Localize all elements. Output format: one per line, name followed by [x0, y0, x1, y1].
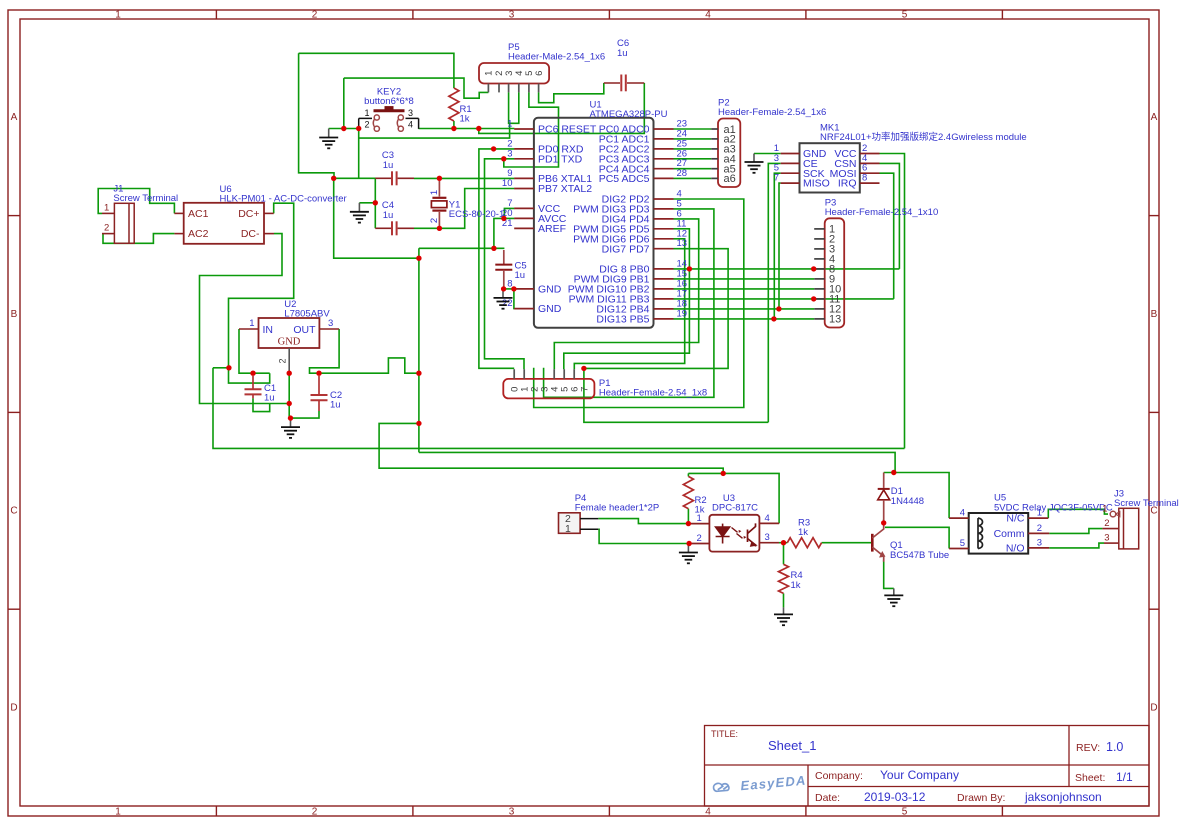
U2 pin 1 IN [239, 328, 259, 330]
J3 pin 3 [1104, 542, 1119, 544]
wire AVCC VCC feed [419, 247, 505, 249]
wire DIG4 to P1 pin4 [554, 219, 698, 369]
svg-text:1k: 1k [460, 114, 470, 125]
svg-text:3: 3 [328, 318, 333, 329]
wire DIG2 to P1 pin2 [534, 199, 744, 408]
resistor R3 [787, 538, 821, 548]
svg-text:D: D [1150, 703, 1157, 714]
MK1 pin 5 SCK [781, 172, 800, 174]
U6 pin DC- [264, 233, 274, 235]
svg-text:button6*6*8: button6*6*8 [364, 96, 414, 107]
svg-text:D: D [10, 703, 17, 714]
svg-text:PC6 RESET: PC6 RESET [538, 124, 597, 136]
U3 pin 3 [759, 542, 779, 544]
header P3 [825, 218, 845, 327]
svg-text:1u: 1u [617, 48, 628, 59]
P2 pin a5 [711, 168, 718, 170]
P2 pin a2 [711, 138, 718, 140]
optocoupler U3 [709, 515, 759, 552]
U1 pin 2 PD0 RXD [514, 148, 534, 150]
svg-text:1: 1 [484, 71, 495, 76]
svg-text:1N4448: 1N4448 [891, 496, 924, 507]
KEY2 contacts [373, 115, 403, 131]
wire Q1 emitter to gnd [884, 560, 894, 588]
U1 pin 4 DIG2 PD2 [654, 198, 674, 200]
ground U3 pin2 [679, 544, 698, 564]
svg-text:5: 5 [902, 10, 908, 21]
voltage regulator U2 [259, 318, 320, 348]
svg-text:1k: 1k [798, 527, 808, 538]
svg-text:2019-03-12: 2019-03-12 [864, 790, 926, 804]
EasyEDA logo [713, 773, 807, 796]
MK1 pin 7 MISO [781, 182, 800, 184]
U1 pin 5 PWM DIG3 PD3 [654, 208, 674, 210]
U6 pin AC2 [174, 233, 183, 235]
P2 pin a6 [711, 177, 718, 179]
wire P5.5 to TXD under chip [504, 92, 559, 167]
P2 pin a3 [711, 148, 718, 150]
svg-text:1: 1 [697, 513, 702, 524]
wire DIG9 row to P3 [674, 278, 815, 280]
P3 pin 1 [814, 228, 825, 230]
ground under U2 [281, 418, 300, 438]
U3 phototransistor [748, 523, 756, 546]
U2 pin 2 stem [288, 348, 290, 373]
wire MK1 CSN to P3 row8 [880, 163, 900, 269]
wire DIG11 row to P3 and MOSI [674, 298, 894, 300]
U1 pin 18 DIG12 PB4 [654, 308, 674, 310]
U3 LED symbol [716, 524, 747, 544]
wire C3 left net [334, 178, 376, 228]
U1 pin 15 PWM DIG9 PB1 [654, 278, 674, 280]
U1 pin 25 PC2 ADC2 [654, 148, 674, 150]
wire 5V vertical rail [418, 248, 420, 452]
P1 pin 6 [573, 369, 575, 379]
U1 pin 28 PC5 ADC5 [654, 177, 674, 179]
wire U1 right rows to P2 [674, 128, 712, 130]
crystal Y1 [438, 181, 440, 197]
wire U2 gnd vertical [288, 373, 290, 418]
P2 pin a4 [711, 158, 718, 160]
svg-text:1u: 1u [383, 160, 394, 171]
wire C1 bottom loop [253, 398, 270, 411]
svg-text:Your Company: Your Company [880, 768, 959, 782]
resistor R2 [683, 476, 693, 508]
svg-text:GND: GND [538, 303, 562, 315]
wire MK1 gnd [754, 153, 781, 155]
MK1 pin 4 CSN [860, 162, 880, 164]
svg-text:GND: GND [278, 337, 301, 348]
capacitor C2 [318, 376, 320, 395]
svg-text:Comm: Comm [994, 528, 1025, 540]
U1 pin 16 PWM DIG10 PB2 [654, 288, 674, 290]
J1 pin 2 [102, 233, 114, 235]
svg-text:a6: a6 [724, 173, 736, 185]
svg-text:2: 2 [312, 807, 318, 818]
wire U6 DC+ to U2 IN [229, 203, 294, 383]
P3 pin 12 [814, 308, 825, 310]
connector J3 [1119, 508, 1139, 549]
wire collector node to relay pin5 [883, 519, 885, 523]
U1 pin 22 GND [514, 308, 534, 310]
U3 pin 1 [688, 523, 709, 525]
svg-text:HLK-PM01 - AC-DC-converter: HLK-PM01 - AC-DC-converter [220, 194, 347, 205]
svg-text:Drawn By:: Drawn By: [957, 792, 1005, 804]
header P2 [718, 119, 740, 188]
svg-text:2: 2 [697, 533, 702, 544]
U1 pin 8 GND [514, 288, 534, 290]
svg-text:B: B [1151, 309, 1158, 320]
svg-text:N/O: N/O [1006, 543, 1025, 555]
svg-text:PB7 XTAL2: PB7 XTAL2 [538, 183, 592, 195]
MK1 pin 3 CE [781, 162, 800, 164]
ground near P2 [745, 154, 764, 173]
transistor Q1 [871, 534, 874, 552]
svg-text:AC1: AC1 [188, 208, 209, 220]
svg-text:MISO: MISO [803, 178, 830, 190]
wire D1 top row to relay pin4 [884, 473, 949, 519]
U3 pin 4 [759, 522, 779, 524]
wire MK1 MISO [779, 183, 781, 309]
svg-text:DC+: DC+ [238, 208, 259, 220]
svg-text:1u: 1u [330, 400, 341, 411]
svg-text:Sheet:: Sheet: [1075, 772, 1105, 784]
wire U6 DC- to gnd node [200, 234, 290, 404]
header P4 [559, 513, 581, 534]
U1 pin 3 PD1 TXD [514, 158, 534, 160]
U5 pin 3 N/O [1028, 547, 1049, 549]
wire MK1 VCC to bus1 [880, 154, 905, 449]
svg-text:DPC-817C: DPC-817C [712, 503, 758, 514]
P3 pin 11 [814, 298, 825, 300]
svg-text:Header-Female-2.54_1x6: Header-Female-2.54_1x6 [718, 107, 826, 118]
svg-text:3: 3 [1037, 537, 1042, 548]
wire DIG8 row to P3 pin8 and CSN [674, 268, 900, 270]
svg-text:2: 2 [1037, 523, 1042, 534]
ground C5 [494, 289, 513, 309]
P3 pin 13 [814, 318, 825, 320]
wire P4.2 to U3.1 [598, 519, 688, 524]
wire P4.1 to U3.2 [598, 529, 689, 543]
J3 pin 1 [1110, 511, 1116, 517]
svg-text:PD1 TXD: PD1 TXD [538, 153, 583, 165]
svg-text:1: 1 [249, 318, 254, 329]
svg-text:ATMEGA328P-PU: ATMEGA328P-PU [590, 109, 668, 120]
svg-text:DC-: DC- [241, 228, 260, 240]
svg-text:ECS-80-20-1: ECS-80-20-1 [449, 209, 504, 220]
svg-text:1: 1 [115, 10, 121, 21]
wire DIG6 to P1 pin6 [574, 239, 684, 369]
wire XTAL1 row [414, 177, 514, 179]
wire U2 OUT to 5V rail [310, 329, 419, 373]
svg-text:1: 1 [104, 203, 109, 214]
wire bus1 +5Vin [213, 368, 905, 449]
P3 pin 3 [814, 248, 825, 250]
U1 pin 6 DIG4 PD4 [654, 218, 674, 220]
svg-text:Screw Terminal: Screw Terminal [113, 193, 178, 204]
wire DIG3 to P1 pin3 [544, 209, 714, 397]
svg-text:13: 13 [677, 238, 688, 249]
svg-text:1: 1 [429, 190, 440, 195]
svg-text:22: 22 [502, 298, 513, 309]
U1 pin 23 PC0 ADC0 [654, 128, 674, 130]
wire MK1 CE [768, 163, 780, 422]
svg-text:A: A [11, 112, 18, 123]
svg-text:REV:: REV: [1076, 742, 1100, 754]
RF module MK1 [800, 143, 860, 192]
svg-text:Sheet_1: Sheet_1 [768, 738, 816, 753]
wire DIG7 to P1 pin7 [584, 249, 728, 369]
svg-text:1: 1 [565, 523, 571, 535]
ground KEY2 [319, 129, 338, 149]
U1 pin 14 DIG 8 PB0 [654, 268, 674, 270]
svg-text:3: 3 [509, 10, 515, 21]
wire U3.3 to R3/R4/Q1 base [779, 542, 787, 544]
svg-text:1: 1 [507, 119, 512, 130]
U1 pin 27 PC4 ADC4 [654, 168, 674, 170]
svg-text:Header-Male-2.54_1x6: Header-Male-2.54_1x6 [508, 52, 605, 63]
wire XTAL2 row / C4 right [414, 189, 514, 229]
wire KEY2 row [329, 128, 359, 130]
MK1 pin 6 MOSI [860, 172, 880, 174]
MK1 pin 2 VCC [860, 153, 880, 155]
svg-text:IRQ: IRQ [838, 178, 857, 190]
svg-text:13: 13 [829, 314, 841, 326]
wire R2 bottom to U3.1 [687, 509, 689, 524]
svg-text:Date:: Date: [815, 792, 840, 804]
J3 pin 2 [1102, 528, 1118, 530]
svg-text:28: 28 [677, 168, 688, 179]
svg-text:2: 2 [104, 223, 109, 234]
wire loop2 KEY2 to P5 pin1 [343, 78, 345, 128]
svg-text:DIG7 PD7: DIG7 PD7 [602, 243, 650, 255]
svg-text:5VDC Relay JQC3F-05VDC: 5VDC Relay JQC3F-05VDC [994, 503, 1113, 514]
capacitor C6 [604, 82, 620, 84]
P3 pin 10 [814, 288, 825, 290]
U1 pin 13 DIG7 PD7 [654, 248, 674, 250]
U5 pin 5 [949, 548, 969, 550]
capacitor C3 [375, 177, 391, 179]
svg-text:BC547B Tube: BC547B Tube [890, 550, 949, 561]
svg-text:1u: 1u [264, 393, 275, 404]
wire DIG10 row to P3 [674, 288, 815, 290]
svg-text:10: 10 [502, 178, 513, 189]
svg-text:Company:: Company: [815, 770, 863, 782]
wire J1.1 to U6 AC1 [98, 189, 174, 214]
relay U5 [969, 513, 1028, 554]
capacitor C5 [503, 250, 505, 265]
svg-text:OUT: OUT [293, 324, 316, 336]
ground C3 C4 [350, 203, 369, 223]
svg-text:TITLE:: TITLE: [711, 729, 738, 739]
svg-text:DIG13 PB5: DIG13 PB5 [596, 314, 649, 326]
U1 pin 10 PB7 XTAL2 [514, 188, 534, 190]
resistor R1 [449, 88, 459, 121]
svg-text:3: 3 [507, 148, 512, 159]
P3 pin 8 [814, 268, 825, 270]
wire C2 bottom [291, 411, 320, 418]
svg-text:B: B [11, 309, 18, 320]
svg-text:5: 5 [902, 807, 908, 818]
svg-text:jaksonjohnson: jaksonjohnson [1024, 790, 1102, 804]
header P5 [479, 63, 549, 84]
svg-text:1: 1 [115, 807, 121, 818]
wire RXD to P1 pin0 [479, 149, 515, 368]
U2 pin 3 OUT [319, 328, 339, 330]
U1 pin 19 DIG13 PB5 [654, 318, 674, 320]
svg-text:5: 5 [960, 538, 965, 549]
svg-text:N/C: N/C [1006, 513, 1025, 525]
svg-text:19: 19 [677, 308, 688, 319]
wire long horizontal to P5.3/P5.4 [359, 123, 510, 138]
wire gnd drop to 5v rail (as drawn) [334, 178, 419, 258]
U6 pin AC1 [174, 212, 183, 214]
svg-text:6: 6 [534, 71, 545, 76]
U1 pin 1 PC6 RESET [514, 128, 534, 130]
U1 pin 7 VCC [514, 207, 534, 209]
svg-text:Header-Female-2.54_1x10: Header-Female-2.54_1x10 [825, 207, 939, 218]
svg-text:4: 4 [960, 508, 965, 519]
svg-text:3: 3 [1104, 533, 1109, 544]
U1 pin 20 AVCC [514, 217, 534, 219]
wire C5 bottom GND pin8 row [504, 288, 515, 290]
svg-text:AC2: AC2 [188, 228, 209, 240]
P4 stubs [580, 518, 598, 520]
screw terminal J1 wires done; KEY2 button [359, 118, 419, 128]
P1 pin 5 [563, 369, 565, 379]
svg-text:L7805ABV: L7805ABV [284, 309, 330, 320]
svg-text:2: 2 [364, 120, 369, 130]
resistor R4 [779, 564, 789, 593]
title block [705, 726, 1150, 807]
U1 pin 21 AREF [514, 227, 534, 229]
svg-text:2: 2 [1104, 518, 1109, 529]
wire TXD to P1 pin1 [485, 159, 525, 369]
KEY2 cap bar [374, 109, 405, 112]
svg-text:2: 2 [429, 218, 440, 223]
ground R4 [774, 607, 793, 625]
wire U5.1 to J3.1 [1048, 509, 1108, 518]
P2 pin a1 [711, 128, 718, 130]
U5 pin 4 [949, 517, 969, 519]
svg-text:8: 8 [862, 173, 867, 184]
wire bus2 +5V to D1 [419, 452, 895, 472]
svg-text:3: 3 [408, 108, 413, 118]
svg-text:7: 7 [774, 173, 779, 184]
U1 pin 24 PC1 ADC1 [654, 138, 674, 140]
P3 pin 2 [814, 238, 825, 240]
MK1 pin 8 IRQ [860, 182, 880, 184]
MK1 pin 1 GND [781, 153, 800, 155]
svg-text:4: 4 [408, 120, 413, 130]
svg-text:1: 1 [364, 108, 369, 118]
svg-text:4: 4 [765, 513, 770, 524]
svg-text:7: 7 [580, 387, 591, 392]
svg-text:Female header1*2P: Female header1*2P [575, 503, 660, 514]
svg-text:PC5 ADC5: PC5 ADC5 [599, 173, 650, 185]
svg-text:Screw Terminal: Screw Terminal [1114, 498, 1179, 509]
P1 pin 0 [513, 369, 515, 379]
wire C6 right to RESET crossing [479, 83, 645, 133]
P3 pin 4 [814, 258, 825, 260]
J1 pin 1 [102, 212, 114, 214]
P5 pin stubs [487, 84, 489, 93]
U5 coil [978, 518, 983, 548]
wire P1 pin7 through to CE [584, 368, 768, 422]
wire loop1 R1 top net [299, 53, 454, 88]
wire MK1 MOSI to P3 row11 [880, 173, 894, 299]
header P1 [503, 379, 594, 399]
wire U5.3 to J3.3 [1049, 543, 1104, 548]
svg-text:1/1: 1/1 [1116, 770, 1133, 784]
svg-text:AREF: AREF [538, 223, 566, 235]
U5 pin 2 Comm [1028, 532, 1049, 534]
svg-text:1u: 1u [515, 270, 526, 281]
U3 pin 2 [689, 543, 709, 545]
wire MK1 SCK [774, 173, 780, 319]
svg-text:IN: IN [263, 324, 274, 336]
diode D1 [883, 473, 885, 488]
svg-text:4: 4 [705, 807, 711, 818]
AC-DC converter U6 [184, 203, 264, 244]
capacitor C4 [375, 227, 391, 229]
svg-text:1u: 1u [383, 210, 394, 221]
wire J1.2 to U6 AC2 [103, 234, 174, 244]
U1 pin 9 PB6 XTAL1 [514, 177, 534, 179]
wire DIG12 row to P3 and MISO [674, 308, 815, 310]
connector J1 [114, 203, 134, 243]
P1 pin 4 [553, 369, 555, 379]
svg-text:1k: 1k [791, 580, 801, 591]
svg-text:1.0: 1.0 [1106, 740, 1123, 754]
capacitor C1 [252, 376, 254, 389]
svg-text:NRF24L01+功率加强版绑定2.4Gwireless m: NRF24L01+功率加强版绑定2.4Gwireless module [820, 131, 1027, 143]
svg-text:A: A [1151, 112, 1158, 123]
wire P5.6 to C6 left [539, 83, 604, 103]
P1 pin 1 [523, 369, 525, 379]
wire DIG5 to P1 pin5 [564, 229, 690, 369]
U1 pin 17 PWM DIG11 PB3 [654, 298, 674, 300]
svg-text:4: 4 [705, 10, 711, 21]
svg-text:3: 3 [765, 532, 770, 543]
svg-text:C: C [10, 506, 17, 517]
svg-text:1: 1 [1102, 504, 1107, 515]
svg-text:2: 2 [278, 358, 288, 363]
U1 pin 26 PC3 ADC3 [654, 158, 674, 160]
ground Q1 [884, 588, 903, 606]
wire KEY2 gnd-row drop to C3 net [358, 129, 360, 179]
MCU U1 ATMEGA328P-PU [534, 118, 654, 328]
svg-text:GND: GND [538, 284, 562, 296]
svg-text:Header-Female-2.54_1x8: Header-Female-2.54_1x8 [599, 388, 707, 399]
U1 pin 12 PWM DIG6 PD6 [654, 238, 674, 240]
svg-text:3: 3 [509, 807, 515, 818]
U1 pin 11 PWM DIG5 PD5 [654, 228, 674, 230]
U5 pin 1 N/C [1028, 517, 1048, 519]
svg-text:2: 2 [312, 10, 318, 21]
P3 pin 9 [814, 278, 825, 280]
U6 pin DC+ [264, 212, 274, 214]
wire U5.2 to J3.2 [1049, 529, 1102, 534]
wire lineA +5V to R2/U3.4 [379, 423, 723, 473]
wire DIG13 row to P3 and SCK [674, 318, 815, 320]
